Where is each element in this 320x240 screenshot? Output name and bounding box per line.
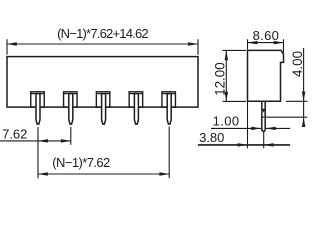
- svg-text:4.00: 4.00: [290, 51, 305, 77]
- housing body (front view): [7, 57, 198, 108]
- extension line pin 5: [168, 127, 170, 179]
- extension line pin 1: [37, 127, 39, 178]
- extension line body front face: [247, 102, 249, 148]
- extension line pin centerline: [263, 132, 265, 149]
- dimension 1.00 pin thickness: [211, 127, 290, 130]
- svg-text:12.00: 12.00: [213, 62, 228, 96]
- svg-text:(N−1)*7.62+14.62: (N−1)*7.62+14.62: [57, 26, 148, 41]
- dimension (N-1)*7.62 span: [38, 172, 169, 176]
- pin 5: [162, 92, 176, 124]
- pin 2: [64, 92, 78, 124]
- svg-text:3.80: 3.80: [199, 130, 224, 145]
- svg-text:(N−1)*7.62: (N−1)*7.62: [52, 155, 110, 170]
- pin 3: [96, 92, 110, 124]
- side view solder pin: [262, 101, 265, 131]
- svg-text:1.00: 1.00: [213, 114, 240, 129]
- extension line pin 2: [70, 127, 72, 145]
- svg-text:7.62: 7.62: [2, 127, 27, 142]
- svg-text:8.60: 8.60: [253, 28, 280, 43]
- pin 4: [129, 92, 143, 124]
- housing body (side view) with latch nub: [248, 50, 284, 101]
- dimension (N-1)*7.62+14.62 overall width: [7, 39, 198, 55]
- dimension 8.60 depth: [248, 39, 284, 53]
- dimension 12.00 height: [223, 50, 246, 101]
- pin 1: [31, 92, 45, 124]
- dimension labels: [2, 26, 305, 170]
- dimension 4.00 pin shoulder: [261, 48, 307, 127]
- pin crimp chevron: [262, 109, 265, 113]
- dimension 3.80 pin offset: [198, 143, 290, 147]
- dimension 7.62 pitch: [0, 139, 71, 143]
